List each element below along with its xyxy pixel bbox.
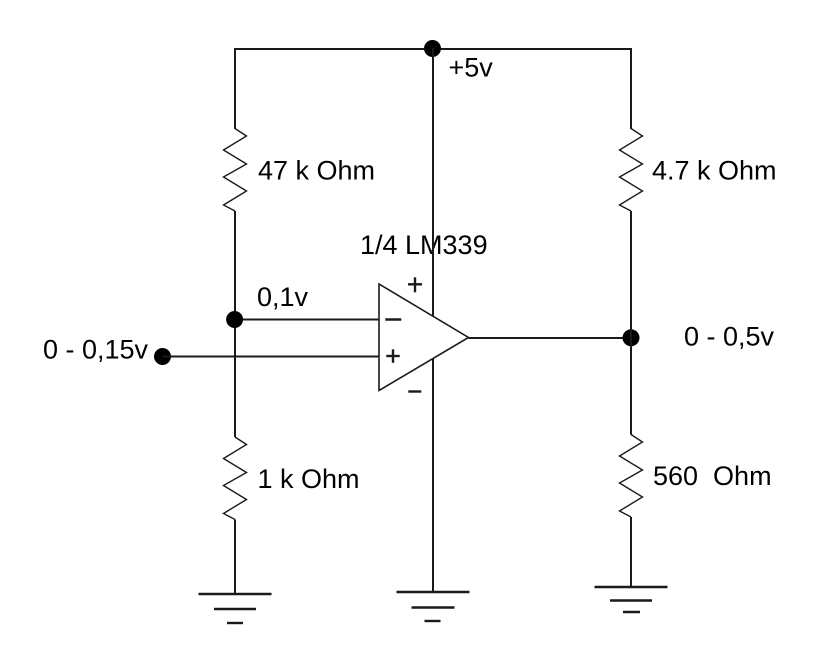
node: +5v junction dot [424, 40, 441, 57]
svg-text:0 - 0,15v: 0 - 0,15v [43, 335, 149, 365]
wire: V+ supply wire into op-amp [432, 48, 434, 330]
wire: left branch middle segment (node to 1k) [234, 211, 236, 437]
wire: left branch lower segment to ground [234, 520, 236, 595]
ground: right ground symbol [595, 587, 668, 612]
node 0,1v junction dot [226, 311, 243, 328]
resistor R3 4.7 k Ohm [620, 129, 643, 212]
resistor R2 1 k Ohm [224, 437, 247, 520]
pin label - (inverting input) [385, 318, 401, 320]
pin label - (ground pin) [408, 390, 421, 392]
wire: right branch upper segment [630, 48, 632, 129]
svg-text:1/4 LM339: 1/4 LM339 [360, 230, 488, 260]
pin label + (V+ supply) [408, 277, 422, 292]
wire: left branch upper segment [234, 48, 236, 129]
wire: right branch lower segment to ground [630, 517, 632, 587]
svg-text:0,1v: 0,1v [257, 282, 309, 312]
wire: inverting input wire from divider node [235, 319, 380, 321]
svg-text:4.7 k Ohm: 4.7 k Ohm [652, 156, 777, 186]
svg-text:1 k Ohm: 1 k Ohm [258, 464, 360, 494]
ground: left ground symbol [199, 594, 272, 623]
wire: non-inverting input wire [163, 356, 380, 358]
wire: op-amp ground wire [432, 345, 434, 592]
pin label + (non-inverting input) [386, 349, 399, 363]
resistor R1 47 k Ohm [224, 129, 247, 212]
wire: right branch middle segment [630, 211, 632, 435]
op-amp U1 comparator triangle [379, 284, 469, 391]
svg-text:0 - 0,5v: 0 - 0,5v [684, 322, 775, 352]
wire: 1k resistor to left node [234, 436, 236, 438]
wire: +5V top rail [234, 48, 632, 50]
svg-text:47 k Ohm: 47 k Ohm [258, 156, 375, 186]
ground: middle ground symbol [397, 592, 470, 621]
svg-text:+5v: +5v [449, 53, 494, 83]
svg-text:560 Ohm: 560 Ohm [653, 461, 772, 491]
node: input terminal dot [154, 348, 171, 365]
wire: op-amp output wire [469, 337, 632, 339]
resistor R4 560 Ohm [620, 435, 643, 518]
node: output junction dot [623, 329, 640, 346]
